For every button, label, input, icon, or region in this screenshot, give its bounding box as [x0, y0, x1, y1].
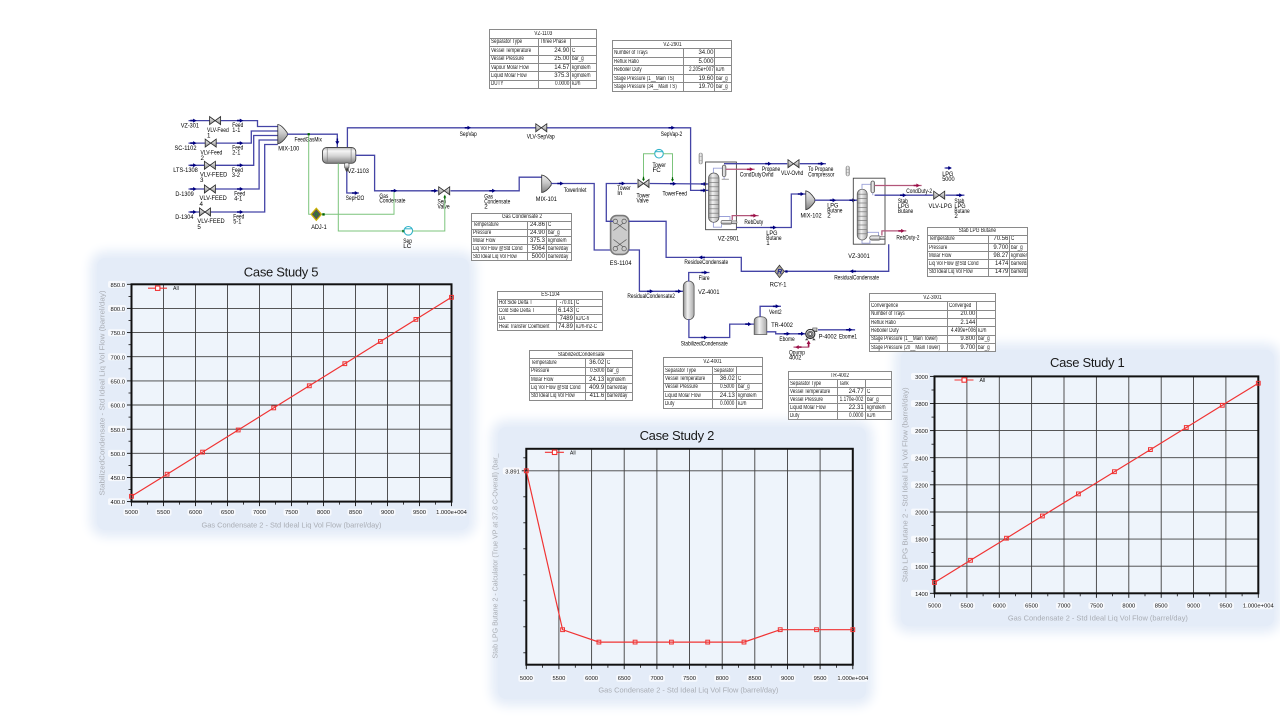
label Feed 2-1: [232, 145, 243, 157]
wire Ebome1: [818, 329, 855, 331]
node LPG Butane 2 arrow: [830, 198, 836, 202]
node Ovhd arrow: [765, 162, 771, 166]
wire Sep LC output signal: [413, 195, 445, 231]
node SC-1102 inlet arrow: [190, 141, 196, 145]
svg-text:4: 4: [200, 201, 204, 208]
svg-text:4-1: 4-1: [234, 196, 243, 203]
svg-text:VLV-FEED: VLV-FEED: [200, 172, 228, 179]
svg-text:ADJ-1: ADJ-1: [311, 224, 327, 231]
node RebDuty arrow: [751, 214, 757, 218]
node LPG 5000 arrow: [946, 166, 952, 170]
node Feed 3 arrow: [237, 163, 243, 167]
svg-text:MIX-100: MIX-100: [278, 146, 300, 153]
svg-text:CondDuty-2: CondDuty-2: [906, 188, 932, 195]
svg-text:MIX-102: MIX-102: [801, 212, 823, 219]
node Tower FC sample arrow: [671, 177, 674, 182]
node LPG Butane 1 inlet arrow: [798, 192, 804, 196]
label VLV-FEED 3: [200, 172, 228, 185]
table VZ-2901: [612, 40, 732, 92]
svg-text:VLV-SepVap: VLV-SepVap: [527, 134, 555, 141]
node Feed 1 arrow: [237, 119, 243, 123]
node StabilizedCondensate arrow: [701, 336, 707, 340]
separator VZ-1103: [323, 148, 356, 174]
svg-text:RebDuty: RebDuty: [744, 219, 764, 226]
wire StabilizedCondensate: [689, 319, 754, 337]
pump P-4002: [805, 328, 817, 340]
svg-text:4002: 4002: [789, 355, 802, 362]
controller Sep LC: [404, 227, 413, 236]
wire feed stream LTS-1308: [189, 136, 278, 166]
label Propane Ovhd: [762, 166, 781, 178]
label Tower In: [617, 185, 630, 197]
svg-text:5000: 5000: [942, 176, 955, 183]
valve VLV-FEED 3: [204, 161, 215, 169]
svg-text:A: A: [314, 213, 319, 219]
label Stab LPG Butane: [898, 198, 914, 215]
node Gas Condensate 2 arrow: [489, 189, 495, 193]
svg-text:VLV-LPG: VLV-LPG: [929, 203, 953, 210]
svg-text:1: 1: [207, 132, 211, 139]
node TowerInlet arrow: [557, 182, 563, 186]
label VLV-FEED 4: [200, 195, 228, 208]
column sub-flowsheet box VZ-3001: [853, 178, 885, 244]
svg-text:VZ-3001: VZ-3001: [848, 253, 870, 260]
node TowerFeed arrow: [670, 182, 676, 186]
svg-text:TowerFeed: TowerFeed: [663, 191, 688, 198]
valve Sep Valve: [439, 187, 450, 195]
svg-text:StabilizedCondensate: StabilizedCondensate: [681, 340, 728, 347]
wire Ebome: [767, 332, 806, 334]
node Stab LPG Butane 2 arrow: [956, 193, 962, 197]
node Gas Condensate valve-inlet arrow: [431, 189, 437, 193]
label Stab LPG Butane 2: [954, 198, 970, 220]
svg-text:2: 2: [484, 203, 488, 210]
label Feed 3-2: [232, 167, 243, 179]
reboiler VZ-3001: [870, 236, 881, 240]
svg-text:2: 2: [954, 213, 958, 220]
label Sep LC: [403, 238, 412, 250]
wire SepH2O: [347, 172, 359, 194]
label VLV-Feed 1: [207, 127, 229, 140]
label Gas Condensate: [379, 193, 406, 205]
wire Gas Condensate 2: [451, 177, 542, 191]
wire CondDuty energy stream: [726, 168, 755, 170]
node ADJ-1 junction dot: [322, 213, 324, 215]
label LPG Butane 1: [766, 230, 782, 247]
svg-text:SepH2O: SepH2O: [346, 195, 365, 202]
condenser VZ-2901: [722, 165, 726, 177]
svg-text:SC-1102: SC-1102: [175, 145, 198, 152]
wire RebDuty-2 energy stream: [882, 231, 906, 236]
node Stab LPG Butane arrow: [900, 193, 906, 197]
svg-text:D-1309: D-1309: [175, 191, 194, 198]
svg-text:FC: FC: [653, 167, 662, 174]
wire FeedGasMix: [287, 134, 337, 147]
node To Propane Compressor arrow: [818, 162, 824, 166]
svg-text:2: 2: [827, 213, 831, 220]
svg-text:2: 2: [201, 155, 205, 162]
svg-text:SepVap-2: SepVap-2: [661, 131, 683, 138]
node LTS-1308 inlet arrow: [190, 163, 196, 167]
wire VZ-3001 internals: [862, 184, 879, 243]
adjust ADJ-1: [311, 208, 321, 220]
label To Propane Compressor: [808, 166, 834, 178]
wire Qpump 4002 energy stream: [794, 342, 809, 348]
svg-text:Condensate: Condensate: [484, 198, 511, 205]
node ResidualCondensate2 inlet arrow: [675, 289, 681, 293]
wire ResidualCondensate: [784, 244, 889, 271]
svg-text:ResidualCondensate2: ResidualCondensate2: [627, 293, 675, 300]
column sub-flowsheet box VZ-2901: [706, 162, 737, 230]
wire RebDuty energy stream: [732, 216, 758, 220]
svg-text:5-1: 5-1: [233, 219, 242, 226]
valve VLV-Feed 1: [210, 117, 221, 125]
chart Case Study 5 background: [97, 258, 469, 530]
svg-text:Valve: Valve: [438, 203, 451, 210]
svg-text:2-1: 2-1: [232, 150, 241, 157]
svg-text:RCY-1: RCY-1: [770, 281, 787, 288]
node ResidualCondensate arrow: [850, 269, 856, 273]
table VZ-3001: [869, 293, 996, 352]
label Feed 4-1: [234, 191, 245, 203]
svg-text:CondDuty: CondDuty: [740, 171, 762, 178]
svg-text:Vent2: Vent2: [769, 309, 782, 316]
table Stab LPG Butane: [927, 227, 1028, 277]
separator VZ-4001: [683, 281, 694, 320]
mixer MIX-101: [542, 175, 552, 193]
wire Tower FC sample line: [663, 154, 672, 181]
node Sep LC junction dot: [402, 230, 404, 232]
svg-text:MIX-101: MIX-101: [536, 196, 558, 203]
wire Gas Condensate: [356, 155, 438, 191]
node Gas Condensate arrow: [391, 189, 397, 193]
svg-text:1: 1: [766, 240, 770, 247]
node TowerFeed inlet arrow: [701, 182, 707, 186]
table VZ-1103: [489, 29, 597, 89]
wire Tower In: [606, 184, 637, 222]
recycle RCY-1: [775, 265, 788, 277]
node Tower FC arrow on valve: [642, 177, 645, 182]
svg-text:ResidualCondensate: ResidualCondensate: [834, 275, 879, 282]
label Tower FC: [653, 162, 666, 174]
status capsule VZ-2901: [699, 153, 702, 164]
node Qpump 4002 inlet arrow: [807, 340, 811, 346]
wire ADJ-1 sampled from FeedGasMix: [309, 134, 311, 214]
svg-text:Compressor: Compressor: [808, 172, 834, 179]
svg-text:P-4002: P-4002: [819, 334, 838, 341]
node D-1304 inlet arrow: [190, 210, 196, 214]
wire feed stream D-1309: [189, 140, 278, 189]
node ResidueCondensate arrow: [699, 255, 705, 259]
wire Stab LPG Butane 2: [946, 194, 965, 196]
wire TowerFeed: [650, 183, 709, 186]
svg-text:Ebome1: Ebome1: [839, 334, 857, 341]
svg-text:VLV-FEED: VLV-FEED: [197, 218, 225, 225]
node Vent2 arrow: [773, 304, 779, 308]
label LPG 5000: [942, 171, 955, 183]
reboiler VZ-2901: [721, 220, 733, 224]
wire Vent2: [760, 306, 781, 317]
wire feed stream D-1304: [189, 145, 278, 213]
wire feed stream SC-1102: [189, 131, 278, 143]
svg-text:TR-4002: TR-4002: [771, 322, 793, 329]
controller Tower FC: [655, 149, 664, 158]
wire Sep LC level signal: [338, 163, 404, 231]
label LPG Butane 2: [827, 203, 843, 220]
wire To Propane Compressor: [800, 163, 826, 165]
node D-1309 inlet arrow: [190, 187, 196, 191]
svg-text:VZ-2901: VZ-2901: [718, 236, 740, 243]
svg-text:Valve: Valve: [637, 198, 650, 205]
svg-text:SepVap: SepVap: [460, 131, 478, 138]
tank TR-4002: [754, 317, 767, 335]
svg-text:LTS-1308: LTS-1308: [173, 167, 198, 174]
valve VLV-SepVap: [536, 124, 547, 132]
svg-text:D-1304: D-1304: [175, 214, 194, 221]
node Feed 5 arrow: [237, 210, 243, 214]
label Sep Valve: [438, 198, 451, 210]
svg-text:Butane: Butane: [898, 208, 914, 215]
node FeedGasMix arrow: [335, 139, 339, 145]
label VLV-FEED 5: [197, 218, 225, 231]
svg-text:VZ-4001: VZ-4001: [698, 289, 720, 296]
svg-text:VLV-Ovhd: VLV-Ovhd: [781, 170, 804, 177]
node SepVap arrow: [465, 126, 471, 130]
wire SepVap top header: [347, 128, 709, 191]
node SepH2O arrow: [352, 191, 358, 195]
valve VLV-Ovhd: [788, 160, 799, 168]
node ResidualCondensate2 arrow: [647, 289, 653, 293]
svg-text:VZ-301: VZ-301: [181, 122, 200, 129]
mixer MIX-102: [806, 191, 815, 210]
node Feed 2 arrow: [237, 141, 243, 145]
svg-text:RebDuty-2: RebDuty-2: [896, 235, 920, 242]
table StabilizedCondensate: [529, 350, 633, 401]
node SepVap-2 arrow: [669, 126, 675, 130]
node CondDuty arrow: [747, 167, 753, 171]
table Gas Condensate 2: [471, 213, 572, 261]
wire Ovhd: [724, 163, 787, 165]
svg-text:ES-1104: ES-1104: [610, 260, 632, 267]
svg-text:3-2: 3-2: [232, 172, 241, 179]
wire VZ-2901 internals: [713, 168, 730, 227]
wire Stab LPG Butane: [875, 194, 933, 196]
node StabilizedCondensate inlet arrow: [745, 322, 751, 326]
node Sep LC output arrow: [443, 195, 446, 200]
valve Tower Valve: [638, 180, 649, 188]
wire feed stream VZ-301: [189, 121, 278, 127]
label Feed 5-1: [233, 214, 244, 226]
wire Tower FC signal to valve: [644, 154, 655, 179]
node Ebome arrow: [784, 332, 790, 336]
svg-text:Condensate: Condensate: [379, 198, 406, 205]
wire Flare: [689, 273, 710, 282]
svg-text:ResidueCondensate: ResidueCondensate: [684, 259, 728, 266]
svg-text:LC: LC: [403, 243, 411, 250]
chart Case Study 1 background: [901, 350, 1274, 626]
svg-text:Flare: Flare: [699, 275, 710, 282]
table TR-4002: [788, 371, 892, 420]
svg-text:VLV-FEED: VLV-FEED: [200, 195, 228, 202]
wire LPG Butane 2: [815, 199, 858, 201]
node Tower In arrow: [619, 182, 625, 186]
column tray section VZ-2901: [709, 173, 720, 222]
svg-text:In: In: [617, 190, 623, 197]
column tray section VZ-3001: [857, 189, 867, 240]
table VZ-4001: [663, 357, 763, 408]
table ES-1104: [497, 291, 604, 331]
wire TowerInlet: [551, 184, 610, 251]
status capsule VZ-3001: [846, 166, 850, 176]
node RebDuty-2 arrow: [898, 229, 904, 233]
heat-exchanger ES-1104: [611, 216, 629, 255]
label Feed 1-1: [232, 122, 243, 134]
node Ebome1 arrow: [846, 328, 852, 332]
valve VLV-Feed 2: [205, 139, 216, 147]
node Qpump 4002 arrow: [795, 345, 801, 349]
wire ResidualCondensate2: [629, 250, 684, 291]
node LPG Butane 2 inlet arrow: [850, 198, 856, 202]
node Ebome pump-inlet arrow: [798, 332, 804, 336]
svg-text:1-1: 1-1: [232, 127, 241, 134]
valve VLV-FEED 5: [200, 208, 211, 216]
label Qpump 4002: [789, 350, 805, 362]
node Flare arrow: [702, 271, 708, 275]
valve VLV-FEED 4: [204, 185, 215, 193]
svg-text:Ovhd: Ovhd: [762, 172, 774, 179]
wire LPG Butane 1: [736, 194, 805, 228]
svg-text:Ebome: Ebome: [779, 336, 795, 343]
label VLV-Feed 2: [201, 149, 223, 162]
wire ADJ-1 target signal: [322, 192, 395, 214]
wire ResidueCondensate: [629, 221, 775, 271]
label Gas Condensate 2: [484, 193, 511, 210]
mixer MIX-100: [278, 125, 288, 144]
valve VLV-LPG: [934, 191, 945, 199]
chart Case Study 2 background: [498, 427, 866, 699]
node LPG Butane 1 arrow: [770, 226, 776, 230]
svg-text:3: 3: [200, 177, 204, 184]
svg-text:R: R: [777, 269, 782, 276]
node CondDuty-2 arrow: [914, 184, 920, 188]
node Feed 4 arrow: [237, 187, 243, 191]
node SepVap-2 feed arrow: [701, 188, 707, 192]
node VZ-301 inlet arrow: [190, 119, 196, 123]
condenser VZ-3001: [871, 181, 875, 193]
svg-text:5: 5: [197, 224, 201, 231]
wire CondDuty-2 energy stream: [875, 185, 922, 187]
label Tower Valve: [637, 193, 650, 205]
svg-text:TowerInlet: TowerInlet: [564, 187, 587, 194]
svg-text:VZ-1103: VZ-1103: [348, 168, 370, 175]
